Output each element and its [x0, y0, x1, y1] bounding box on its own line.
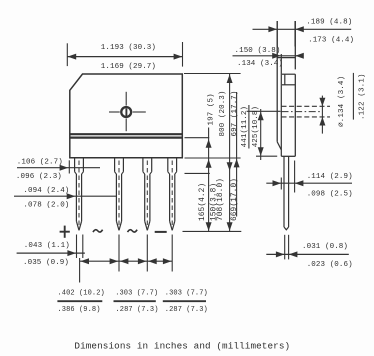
polarity symbol plus [60, 226, 70, 238]
pin 4 front view [168, 158, 177, 231]
pin thickness dimension line [266, 253, 349, 255]
svg-text:.043 (1.1): .043 (1.1) [24, 242, 70, 250]
side depth arrow right [295, 26, 304, 32]
mounting hole horizontal centerline right [133, 111, 146, 113]
arrow up at body top on line B [227, 74, 233, 83]
svg-text:.031 (0.8): .031 (0.8) [302, 243, 348, 251]
svg-text:.096 (2.3): .096 (2.3) [16, 173, 62, 181]
fraction line under first .303 [114, 300, 156, 302]
lower depth extension tick left [280, 178, 282, 190]
arrow up at hole center [258, 112, 264, 121]
pin 2 tail extension [118, 235, 120, 272]
pitch arrows at pin 2 [110, 258, 119, 264]
fraction line under second .303 [163, 300, 206, 302]
side view bottom-left chamfer [277, 142, 281, 150]
svg-text:708(18.0): 708(18.0) [217, 178, 225, 221]
pin pitch dimension line [80, 260, 173, 262]
svg-text:.106 (2.7): .106 (2.7) [17, 158, 63, 166]
svg-text:.078 (2.0): .078 (2.0) [23, 201, 69, 209]
side view top edge [277, 57, 295, 59]
side view hole boss bottom edge [282, 84, 295, 86]
svg-text:441(11.2): 441(11.2) [241, 106, 249, 147]
svg-text:669(17.0): 669(17.0) [231, 178, 239, 221]
left dimension extension tick 1 [68, 160, 70, 173]
side depth arrow left [268, 26, 277, 32]
extension line from pin tips [183, 230, 242, 232]
arrow up at band on line A [206, 139, 212, 148]
svg-text:165(4.2): 165(4.2) [199, 183, 207, 221]
pin 3 front view [143, 158, 152, 231]
fraction line for .441/.425 [248, 105, 250, 149]
hole centerline dash-dot [282, 111, 322, 113]
body bottom extension to side view [256, 155, 277, 157]
svg-text:1.169 (29.7): 1.169 (29.7) [101, 63, 156, 71]
hidden hole line lower [282, 116, 331, 118]
extension line from band [185, 137, 210, 139]
svg-text:.098 (2.5): .098 (2.5) [307, 190, 353, 198]
side view right edge lower [294, 74, 296, 156]
svg-text:.287 (7.3): .287 (7.3) [165, 306, 208, 314]
side view pin left edge [283, 156, 285, 227]
pin 3 tail extension [146, 235, 148, 272]
svg-text:.189 (4.8): .189 (4.8) [306, 18, 352, 26]
lower depth extension tick right [294, 161, 296, 193]
left dimension line 3 [17, 252, 85, 254]
pin 1 tail tick right [82, 235, 84, 259]
fraction line under .402 [57, 300, 102, 302]
side view pin tail tick left [284, 235, 286, 260]
arrow down at pin tip on line B [227, 222, 233, 231]
hole center short extension line [247, 110, 281, 112]
pin thickness arrow right [289, 251, 298, 257]
lower depth dimension line [266, 182, 352, 184]
arrow down at pin step on line B [227, 162, 233, 171]
svg-text:⌀.134 (3.4): ⌀.134 (3.4) [338, 76, 346, 127]
front view body outline [70, 74, 183, 158]
side view left edge outer [276, 21, 278, 142]
svg-text:.023 (0.6): .023 (0.6) [307, 261, 353, 269]
top width dimension arrow left [68, 54, 77, 60]
vertical dimension line A [208, 128, 210, 232]
svg-text:.386 (9.8): .386 (9.8) [58, 306, 101, 314]
mounting hole vertical centerline lower [125, 119, 127, 132]
vertical dimension line D pin length [236, 92, 238, 217]
side view left edge inner [280, 54, 282, 156]
side view pin tip [284, 227, 289, 230]
left dimension arrow 2 [67, 193, 76, 199]
svg-text:697 (17.7): 697 (17.7) [231, 90, 239, 136]
pin 4 tail extension [171, 235, 173, 272]
svg-text:197 (5): 197 (5) [208, 93, 216, 125]
left dimension arrow 3 [67, 250, 76, 256]
top width dimension arrow right [174, 54, 183, 60]
svg-text:.134 (3.4): .134 (3.4) [237, 60, 283, 68]
mounting hole circle [121, 107, 131, 117]
side depth extension tick right [294, 21, 296, 47]
side view bottom edge [281, 155, 295, 157]
svg-text:.114 (2.9): .114 (2.9) [307, 173, 353, 181]
vertical dimension line hole-to-bottom [260, 109, 262, 160]
left dimension line 1 [17, 167, 100, 169]
svg-text:.122 (3.1): .122 (3.1) [358, 73, 366, 120]
extension line from body top [184, 73, 241, 75]
polarity symbol ac tilde 1 [93, 230, 103, 232]
side view pin tail tick right [288, 235, 290, 260]
arrow down at pin tip on line A [206, 222, 212, 231]
pin 1 tail tick left [76, 235, 78, 259]
pin thickness arrow left [276, 251, 285, 257]
mounting hole vertical centerline upper [125, 92, 127, 106]
svg-text:.094 (2.4): .094 (2.4) [23, 187, 69, 195]
polarity symbol ac tilde 2 [128, 230, 138, 232]
front view heatsink band line lower [70, 137, 183, 139]
extension line from pin step [185, 172, 210, 174]
svg-text:425(10.8): 425(10.8) [252, 106, 260, 147]
top width dimension extension tick left [66, 43, 68, 66]
top width dimension extension tick right [182, 42, 184, 67]
polarity symbol minus [155, 231, 167, 233]
left dimension arrow 1 [60, 165, 69, 171]
lower depth arrow right [295, 180, 304, 186]
svg-text:.303 (7.7): .303 (7.7) [165, 289, 208, 297]
pin 1 center extension [79, 258, 81, 283]
arrow up at body bottom on line A [206, 159, 212, 168]
left dimension line 2 [14, 195, 117, 197]
hole diameter arrow lower [319, 117, 325, 126]
svg-text:.303 (7.7): .303 (7.7) [115, 289, 158, 297]
mounting hole center mark [125, 108, 127, 116]
body depth dimension line [233, 55, 304, 57]
pin 1 front view [75, 158, 84, 231]
pitch arrows at pin 3 [138, 258, 147, 264]
vertical dimension line B [229, 74, 231, 232]
front view heatsink band line upper [70, 133, 183, 135]
side view right edge upper [294, 21, 296, 69]
side depth extension tick left [276, 21, 278, 47]
arrow up at body bottom on line D [234, 159, 240, 168]
svg-text:.287 (7.3): .287 (7.3) [116, 306, 159, 314]
side view hole boss top edge [282, 73, 295, 75]
svg-text:.402 (10.2): .402 (10.2) [58, 289, 105, 297]
hidden hole line upper [282, 105, 331, 107]
mounting hole horizontal centerline left [109, 111, 120, 113]
pin 2 front view [115, 158, 124, 231]
pitch arrow at pin 1 [80, 258, 89, 264]
hole diameter dimension line [321, 96, 323, 134]
arrow down at body bottom [258, 147, 264, 156]
side view pin right edge [288, 156, 290, 227]
svg-text:1.193 (30.3): 1.193 (30.3) [101, 44, 156, 52]
body depth arrow left [272, 53, 281, 59]
body depth arrow right [295, 53, 304, 59]
lower depth arrow left [273, 180, 282, 186]
svg-text:800 (20.3): 800 (20.3) [219, 90, 227, 136]
side view hole boss left edge [284, 74, 286, 85]
svg-text:.173 (4.4): .173 (4.4) [308, 37, 354, 45]
fraction line for hole diameter rotated text [352, 73, 354, 120]
svg-text:Dimensions in inches and (mill: Dimensions in inches and (millimeters) [74, 340, 290, 351]
side depth dimension line [253, 28, 352, 30]
hole diameter arrow upper [319, 98, 325, 107]
svg-text:.035 (0.9): .035 (0.9) [23, 259, 69, 267]
pitch arrow at pin 4 [163, 258, 172, 264]
extension line from body bottom [185, 157, 241, 159]
top width dimension line [67, 56, 182, 58]
